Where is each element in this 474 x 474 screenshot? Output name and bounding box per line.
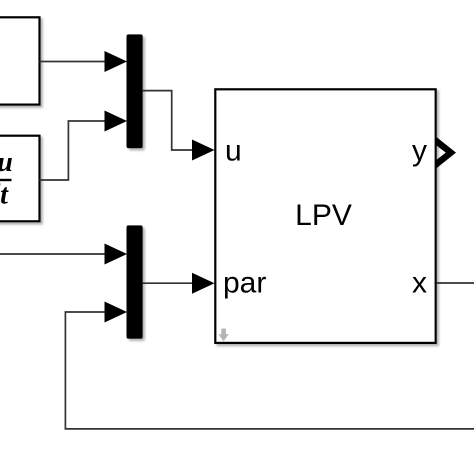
mux M1 (vertical black bar) <box>127 34 143 148</box>
outport marker: chevron on LPV output y <box>436 136 457 169</box>
wire: derivative D1 output to mux M1 input 2 <box>40 111 128 181</box>
badge: gray dropdown arrow at block bottom-left <box>219 329 229 342</box>
wire: LPV port x output to right image edge <box>437 282 474 284</box>
block D1: derivative du/dt (cropped by image edge) <box>0 136 40 222</box>
block U1: LPV system block <box>215 89 435 343</box>
svg-text:dt: dt <box>0 180 9 211</box>
block S1: source block (top-left, cropped by image edge) <box>0 17 40 104</box>
svg-text:x: x <box>412 267 427 300</box>
svg-text:du: du <box>0 147 13 178</box>
svg-text:LPV: LPV <box>295 199 352 232</box>
wire: mux M2 output to LPV port par <box>143 273 215 294</box>
wire: parameter input (from left image edge) to mux M2 input 1 <box>0 244 127 265</box>
mux M2 (vertical black bar) <box>127 225 143 338</box>
svg-text:y: y <box>412 135 427 168</box>
svg-text:u: u <box>225 135 242 168</box>
wire: state feedback (from bottom right edge) to mux M2 input 2 <box>65 302 474 429</box>
wire: source S1 output to mux M1 input 1 <box>40 51 128 72</box>
wire: mux M1 output to LPV port u <box>143 91 215 161</box>
svg-text:par: par <box>223 267 266 300</box>
